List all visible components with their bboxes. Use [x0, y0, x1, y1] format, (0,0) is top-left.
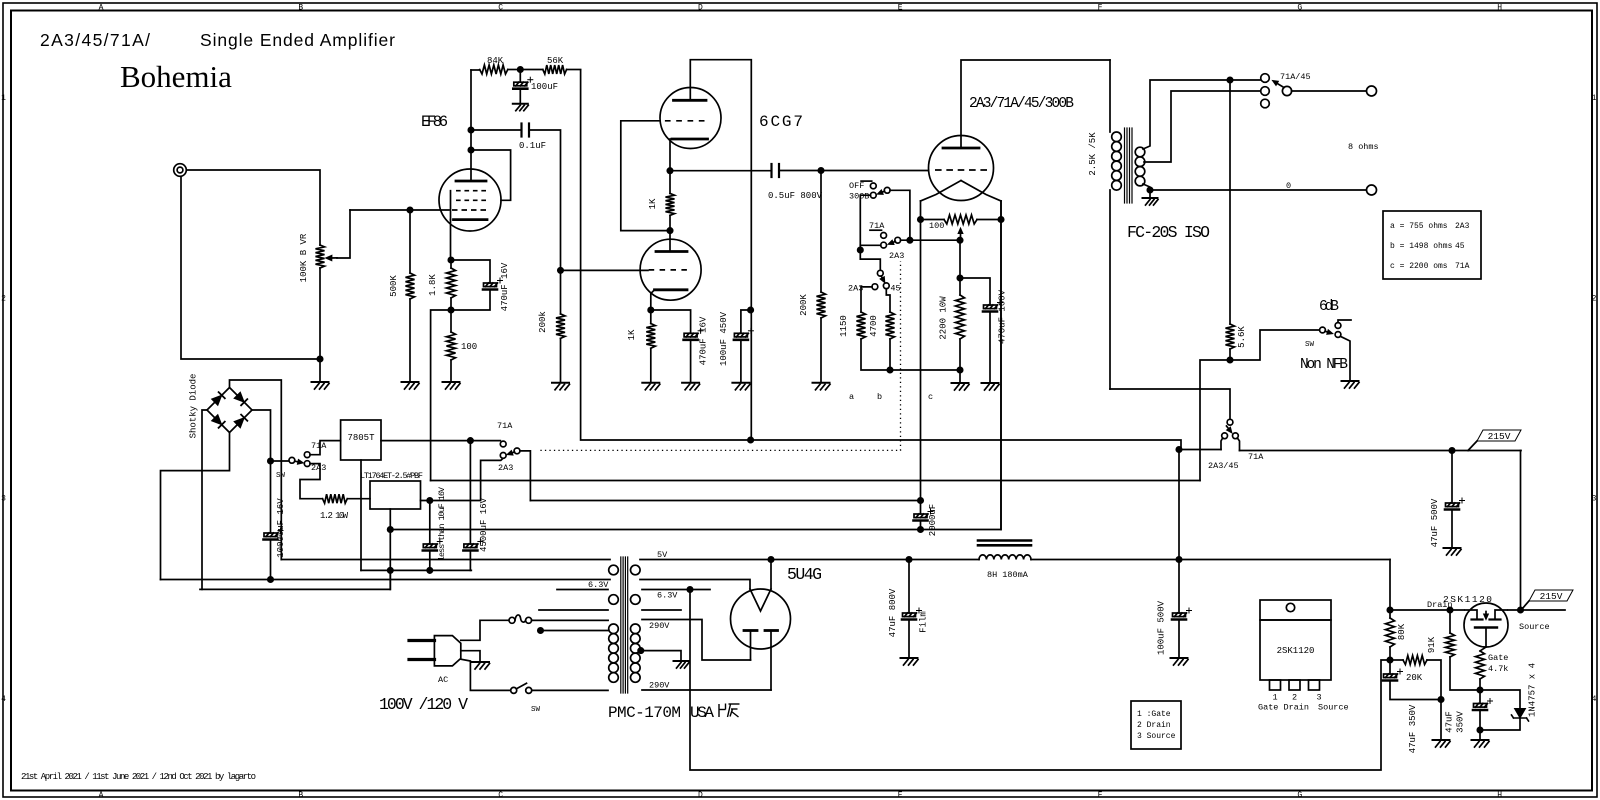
- svg-text:350V: 350V: [1456, 711, 1466, 733]
- svg-text:200k: 200k: [538, 311, 548, 333]
- capacitor 470uF 16V EF86 cathode: [451, 260, 503, 310]
- svg-text:A: A: [99, 791, 104, 800]
- switch speaker tap bottom: [1261, 99, 1270, 108]
- switch lower 2A3-45 common: [877, 270, 884, 282]
- svg-text:Shotky Diode: Shotky Diode: [189, 374, 199, 439]
- flag 215V source: [1522, 590, 1573, 609]
- svg-text:2: 2: [1292, 693, 1297, 703]
- svg-text:USA: USA: [690, 704, 714, 722]
- ground EF86 cathode: [443, 382, 461, 389]
- wire filament left leg down: [920, 201, 922, 501]
- capacitor 4500uF 16V: [463, 441, 483, 571]
- transformer PMC-170M right coils: [631, 565, 641, 682]
- wire 1.2 to LT1764: [347, 498, 370, 500]
- svg-text:SW: SW: [276, 472, 286, 480]
- svg-text:7805T: 7805T: [347, 433, 375, 443]
- wire HV center tap: [638, 648, 681, 661]
- wire HV bottom lead: [642, 689, 771, 691]
- resistor 84K: [471, 65, 520, 74]
- node 47uF 500V tap: [1449, 448, 1454, 453]
- tube 5U4G envelope: [731, 589, 791, 649]
- flag 215V rail: [1468, 430, 1521, 451]
- svg-text:EF86: EF86: [421, 113, 448, 131]
- resistor 56K: [520, 65, 580, 74]
- wire primary tap lead: [538, 628, 608, 633]
- resistor 500K grid leak: [406, 210, 415, 382]
- svg-text:500K: 500K: [389, 275, 399, 297]
- transformer PMC-170M core: [621, 557, 628, 693]
- resistor 5.6K NFB: [1226, 324, 1235, 360]
- svg-text:1: 1: [1, 94, 6, 103]
- svg-text:84K: 84K: [487, 56, 504, 66]
- svg-text:45: 45: [1455, 242, 1465, 251]
- node LT GND rail junction: [388, 568, 393, 573]
- hum pot wiper arrow: [960, 234, 962, 241]
- wire filament return rail: [390, 201, 1001, 530]
- resistor 20K: [1390, 656, 1441, 741]
- resistor 1.2 10W: [323, 494, 348, 503]
- wire HV top lead: [642, 620, 751, 661]
- 6CG7 lower plate: [656, 231, 687, 252]
- svg-text:2A3/45/71A/: 2A3/45/71A/: [40, 30, 150, 50]
- wire bridge minus rail: [200, 570, 390, 589]
- switch NFB ground contact: [1335, 332, 1350, 380]
- wire bridge AC top to winding: [230, 380, 282, 560]
- node pot ground junction: [317, 356, 322, 361]
- svg-text:b: b: [877, 392, 882, 402]
- svg-text:2200 10W: 2200 10W: [939, 296, 949, 340]
- resistor 80K: [1386, 610, 1395, 660]
- transistor 2SK1120 MOSFET: [1464, 603, 1508, 647]
- speaker terminal minus: [1367, 185, 1377, 195]
- wire NFB rail: [431, 480, 1200, 482]
- border grid numbers right: [1592, 94, 1597, 704]
- ground 100uF 500V: [1171, 658, 1189, 665]
- node 20K ground leg: [1438, 697, 1443, 702]
- node 100uF 450V tap: [748, 307, 753, 312]
- svg-text:1.2 10W: 1.2 10W: [320, 511, 349, 521]
- svg-text:200K: 200K: [799, 294, 809, 316]
- switch mains bottom: [511, 683, 532, 693]
- 5U4G plate left: [744, 631, 757, 661]
- transformer PMC-170M left coils: [609, 565, 619, 682]
- svg-text:AC: AC: [438, 675, 448, 685]
- switch lower 2A3 contact: [861, 284, 878, 312]
- node 200K output grid: [818, 168, 823, 173]
- wire heater winding lead bottom left: [161, 579, 611, 581]
- wire 6.3V left stub bottom: [539, 609, 608, 611]
- node 7805 output junction: [468, 438, 473, 443]
- svg-text:2A3/71A/45/300B: 2A3/71A/45/300B: [969, 96, 1074, 112]
- svg-text:less than 10uF 16V: less than 10uF 16V: [437, 486, 447, 561]
- svg-text:Film: Film: [919, 611, 929, 633]
- switch filament reg 2A3 contact: [300, 461, 323, 499]
- svg-text:2A3: 2A3: [1455, 222, 1470, 231]
- package pin 1: [1270, 680, 1281, 690]
- bridge diode D1: [212, 395, 222, 405]
- svg-text:6CG7: 6CG7: [759, 113, 803, 131]
- switch NFB common: [1320, 327, 1333, 334]
- wire 6CG7 upper cathode out: [669, 139, 671, 171]
- 6CG7 upper grid: [665, 120, 705, 122]
- switch bias 71A position: [870, 230, 886, 238]
- svg-text:D: D: [698, 791, 703, 800]
- svg-text:OFF: OFF: [849, 181, 864, 191]
- svg-text:1N4757 x 4: 1N4757 x 4: [1528, 663, 1538, 717]
- svg-text:8 ohms: 8 ohms: [1348, 142, 1379, 152]
- svg-text:290V: 290V: [649, 621, 670, 631]
- capacitor 47uF 350V right: [1473, 690, 1493, 740]
- wire filament supply rail: [530, 500, 920, 502]
- border grid numbers left: [1, 94, 6, 704]
- EF86 plate: [456, 180, 486, 183]
- svg-text:2A3: 2A3: [498, 463, 513, 473]
- 6CG7 lower grid: [649, 269, 687, 271]
- svg-text:91K: 91K: [1427, 636, 1437, 653]
- node bridge plus to switch: [268, 458, 273, 463]
- node bias feed: [957, 238, 962, 243]
- node EF86 grid: [407, 207, 412, 212]
- capacitor 100uF 500V: [1172, 608, 1192, 658]
- svg-text:100uF 450V: 100uF 450V: [719, 311, 729, 366]
- output tube filament: [921, 181, 1002, 202]
- transformer FC-20S core: [1125, 128, 1133, 203]
- node 2000uF minus: [918, 527, 923, 532]
- svg-text:3 Source: 3 Source: [1137, 732, 1176, 741]
- wire source to 215V rail: [1520, 451, 1522, 611]
- resistor 91K: [1446, 610, 1481, 690]
- switch filament reg 71A contact: [304, 441, 340, 458]
- svg-text:Non NFB: Non NFB: [1300, 357, 1348, 373]
- node 4700 bottom: [887, 367, 892, 372]
- node NFB takeoff: [1227, 77, 1232, 82]
- capacitor 10000uF 16V: [264, 528, 284, 580]
- capacitor less than 10uF 16V: [423, 501, 443, 571]
- svg-text:a: a: [849, 392, 854, 402]
- svg-text:F: F: [1098, 4, 1103, 13]
- svg-text:45: 45: [890, 284, 900, 294]
- svg-text:3: 3: [1, 495, 6, 504]
- wire filament right leg down: [1000, 201, 1002, 530]
- svg-text:21st April 2021 / 11st June 20: 21st April 2021 / 11st June 2021 / 12nd …: [21, 772, 256, 782]
- wire heater run to MOSFET divider: [690, 590, 1390, 771]
- switch speaker tap top: [1261, 74, 1270, 83]
- wire EF86 cathode down: [450, 220, 452, 260]
- svg-text:2: 2: [1592, 294, 1597, 303]
- node cathode NFB junction: [448, 307, 453, 312]
- node less10uF ground: [427, 568, 432, 573]
- EF86 grids: [452, 191, 486, 210]
- svg-text:G: G: [1297, 791, 1302, 800]
- node choke rail junction: [1176, 557, 1181, 562]
- 5U4G filament: [750, 589, 771, 611]
- svg-text:2A3: 2A3: [311, 463, 326, 473]
- svg-text:5.6K: 5.6K: [1237, 326, 1247, 348]
- capacitor 100uF decoupling: [513, 70, 533, 104]
- node 6.3V heater takeoff: [687, 587, 692, 592]
- node 1K bottom to lower plate: [667, 228, 672, 233]
- wire bridge minus down: [202, 410, 207, 589]
- svg-text:Source: Source: [1318, 703, 1349, 713]
- ground 200k: [552, 383, 570, 390]
- ground NFB switch: [1342, 381, 1360, 388]
- node filament left hum pot: [918, 217, 923, 222]
- wire choke rail to drain: [1389, 560, 1391, 611]
- ground 100uF 450V: [732, 383, 750, 390]
- node 47uF 800V tap: [906, 557, 911, 562]
- switch bias 2A3 contact: [860, 242, 886, 248]
- package 2SK1120 tab: [1260, 600, 1331, 620]
- wire NFB to EF86 cathode: [431, 310, 451, 481]
- border grid letters top: [99, 4, 1503, 13]
- tube 6CG7 lower triode envelope: [640, 239, 701, 300]
- 6CG7 lower cathode: [651, 290, 687, 310]
- svg-text:PMC-170M: PMC-170M: [608, 704, 681, 722]
- node LT1764 gnd to rail 530: [388, 527, 393, 532]
- svg-text:F: F: [1098, 791, 1103, 800]
- node screen takeoff: [468, 147, 473, 152]
- svg-text:2SK1120: 2SK1120: [1277, 646, 1315, 656]
- 6CG7 upper plate: [674, 99, 707, 102]
- svg-text:8H 180mA: 8H 180mA: [987, 570, 1029, 580]
- bridge diode D4: [234, 418, 244, 428]
- node 6CG7 B+ tap: [748, 437, 753, 442]
- node source junction: [1518, 607, 1523, 612]
- svg-text:c = 2200 oms: c = 2200 oms: [1390, 262, 1448, 271]
- wire primary top lead: [531, 619, 608, 621]
- EF86 cathode: [454, 218, 488, 221]
- svg-text:a = 755 ohms: a = 755 ohms: [1390, 222, 1448, 231]
- svg-text:2.5K /5K: 2.5K /5K: [1088, 132, 1098, 176]
- svg-text:71A/45: 71A/45: [1280, 72, 1311, 82]
- svg-text:5V: 5V: [657, 550, 668, 560]
- wire 2A3/45 to raw B+: [1179, 449, 1221, 451]
- wire ground rail PSU: [361, 569, 471, 571]
- zener string 1N4757 x 4: [1480, 690, 1529, 730]
- svg-text:D: D: [698, 4, 703, 13]
- wire 300B common to bias node: [890, 190, 910, 240]
- capacitor 2000uF: [914, 501, 934, 530]
- svg-text:1 :Gate: 1 :Gate: [1137, 710, 1171, 719]
- speaker terminal plus: [1367, 86, 1377, 96]
- svg-text:4500uF 16V: 4500uF 16V: [479, 497, 489, 552]
- capacitor 0.1uF coupling: [471, 124, 561, 271]
- svg-text:1150: 1150: [839, 315, 849, 337]
- node filament right hum pot: [998, 217, 1003, 222]
- node 2000uF plus: [918, 498, 923, 503]
- ground 47uF 500V: [1444, 548, 1462, 555]
- svg-text:290V: 290V: [649, 681, 670, 691]
- wire NFB line down: [1229, 80, 1231, 324]
- node 470uF 160V tap: [957, 275, 962, 280]
- wire 71A regulated rail: [1240, 450, 1522, 452]
- svg-text:100K B VR: 100K B VR: [299, 233, 309, 282]
- wire EF86 plate to B+ row: [470, 70, 472, 181]
- wire B+ rail: [581, 70, 1181, 450]
- wire LT1764 output: [421, 458, 504, 500]
- ground 470uF 160V: [982, 383, 1000, 390]
- node 0.1uF takeoff: [468, 127, 473, 132]
- ground gate bias: [1472, 740, 1490, 747]
- switch B+ select right 71A: [1233, 433, 1240, 451]
- svg-text:1.8K: 1.8K: [428, 274, 438, 296]
- ground secondary: [1149, 190, 1151, 198]
- output tube grid: [935, 169, 987, 171]
- wire drain line: [1390, 609, 1464, 611]
- svg-text:2: 2: [1, 294, 6, 303]
- bridge diode D3: [212, 415, 222, 425]
- capacitor 100uF 450V B+ decoupling: [734, 310, 754, 383]
- node 300B-2A3 junction: [858, 247, 863, 252]
- ground 470uF lower: [682, 383, 700, 390]
- node EF86 cathode: [448, 257, 453, 262]
- node NFB junction: [1227, 357, 1232, 362]
- switch mains top: [509, 615, 532, 623]
- wire NFB junction to rail: [1200, 360, 1230, 481]
- svg-text:1: 1: [1272, 693, 1277, 703]
- svg-text:H: H: [1497, 4, 1502, 13]
- ground input: [319, 359, 321, 382]
- package pin 2: [1289, 680, 1300, 690]
- wire 7805 ground pin: [360, 460, 362, 570]
- node gate bias: [1477, 687, 1482, 692]
- resistor 200k grid leak: [556, 270, 565, 382]
- capacitor 470uF 16V lower cathode: [651, 310, 703, 383]
- wire middle common to cathode node: [901, 239, 961, 241]
- table impedance box: [1383, 211, 1481, 279]
- switch filament select 2A3 contact: [500, 453, 506, 459]
- wire 300B contact down: [860, 195, 880, 270]
- node 200k grid leak: [558, 268, 563, 273]
- wire NFB junction to switch: [1230, 330, 1320, 360]
- svg-text:5U4G: 5U4G: [787, 565, 822, 584]
- switch B+ select top contact: [1227, 419, 1233, 425]
- svg-text:0.5uF 800V: 0.5uF 800V: [768, 191, 823, 201]
- svg-text:47uF 350V: 47uF 350V: [1408, 704, 1418, 753]
- wire source line: [1508, 609, 1565, 611]
- output tube plate: [943, 60, 1110, 148]
- package pin 3: [1309, 680, 1320, 690]
- regulator LT1764ET: [370, 481, 421, 509]
- potentiometer 100 hum balance: [921, 215, 1002, 224]
- svg-text:215V: 215V: [1540, 591, 1563, 602]
- 6CG7 upper cathode: [672, 138, 708, 141]
- capacitor 47uF 350V left: [1383, 660, 1441, 700]
- node zener return: [1477, 727, 1482, 732]
- svg-text:100V /120 V: 100V /120 V: [379, 695, 468, 714]
- switch speaker tap mid: [1261, 87, 1270, 96]
- wire 6CG7 upper plate to B+: [690, 60, 751, 440]
- svg-text:SW: SW: [531, 706, 541, 714]
- svg-text:71A: 71A: [1455, 262, 1470, 271]
- svg-text:47uF 800V: 47uF 800V: [888, 588, 898, 637]
- wire screen grid strap: [471, 150, 511, 200]
- switch speaker common: [1273, 81, 1292, 96]
- ground 1K lower: [642, 383, 660, 390]
- wire 5V top to filament: [770, 560, 772, 590]
- svg-text:c: c: [928, 392, 933, 402]
- wire transformer primary feed: [1110, 389, 1230, 419]
- svg-text:215V: 215V: [1488, 431, 1511, 442]
- svg-text:E: E: [898, 4, 903, 13]
- ground HV center tap: [674, 661, 690, 668]
- node 10000uF minus: [268, 577, 273, 582]
- input jack J1: [174, 164, 187, 177]
- svg-text:SW: SW: [1305, 341, 1315, 349]
- 5U4G plate right: [765, 631, 778, 691]
- svg-text:0: 0: [1286, 181, 1291, 191]
- wire wiper to EF86 grid: [350, 209, 449, 211]
- wire primary bottom lead: [532, 689, 608, 691]
- switch bias middle common: [888, 237, 901, 244]
- switch bias OFF position: [861, 181, 876, 189]
- svg-text:80K: 80K: [1397, 623, 1407, 640]
- wire heater winding lead top left: [281, 559, 610, 561]
- svg-text:LT1764ET-2.5#PBF: LT1764ET-2.5#PBF: [360, 471, 423, 481]
- resistor 4700: [886, 312, 895, 339]
- wire 0.1uF to lower grid: [561, 269, 649, 271]
- choke 8H 180mA: [978, 541, 1031, 560]
- svg-text:100: 100: [461, 342, 477, 352]
- wire bridge AC bottom to winding: [161, 433, 230, 580]
- regulator 7805T: [341, 420, 381, 460]
- ground 2200: [952, 383, 970, 390]
- node 84K 56K junction: [518, 67, 523, 72]
- wire raw B+ down to choke rail: [1178, 450, 1180, 614]
- capacitor 0.5uF 800V: [772, 164, 780, 177]
- svg-text:6.3V: 6.3V: [657, 591, 678, 601]
- node gate divider: [1387, 657, 1392, 662]
- svg-text:4: 4: [1, 695, 6, 704]
- tube 2A3 output envelope: [929, 136, 994, 201]
- svg-text:3: 3: [1316, 693, 1321, 703]
- svg-text:6.3V: 6.3V: [588, 580, 609, 590]
- node 6CG7 lower cathode: [648, 307, 653, 312]
- svg-text:4.7k: 4.7k: [1488, 664, 1508, 674]
- node bias rail to 2200: [957, 367, 962, 372]
- svg-text:B: B: [298, 791, 303, 800]
- svg-text:470uF 16V: 470uF 16V: [500, 262, 510, 311]
- svg-text:56K: 56K: [547, 56, 564, 66]
- switch filament reg common: [271, 457, 304, 464]
- wire bias resistors bottom rail: [861, 339, 960, 370]
- svg-text:E: E: [898, 791, 903, 800]
- wire 5V winding bottom lead: [640, 580, 750, 590]
- bridge diode D2: [234, 392, 244, 402]
- wire 6.3V right lead: [642, 589, 710, 591]
- svg-text:71A: 71A: [1248, 452, 1264, 462]
- transformer FC-20S primary: [1110, 60, 1121, 389]
- svg-text:20K: 20K: [1406, 673, 1423, 683]
- switch bias upper common: [877, 187, 890, 194]
- wire LT1764 ground pin: [389, 509, 391, 589]
- svg-text:2000uF: 2000uF: [928, 504, 938, 536]
- svg-text:1K: 1K: [627, 329, 637, 340]
- title line: [40, 30, 395, 50]
- svg-text:470uF 16V: 470uF 16V: [699, 316, 709, 365]
- wire B+ DC rail from rectifier: [640, 559, 979, 561]
- wire 6CG7 upper grid bootstrap: [621, 121, 670, 231]
- wire 6.3V left stub top: [557, 589, 608, 591]
- wire jack to volume pot: [187, 170, 321, 245]
- node LT1764 output cap: [427, 498, 432, 503]
- wire secondary bottom: [1143, 184, 1366, 190]
- svg-text:4700: 4700: [869, 315, 879, 337]
- tube 6CG7 upper triode envelope: [660, 88, 721, 149]
- resistor 4.7k gate: [1476, 647, 1487, 690]
- resistor 1K lower cathode: [646, 310, 655, 383]
- svg-text:FC-20S ISO: FC-20S ISO: [1127, 223, 1210, 242]
